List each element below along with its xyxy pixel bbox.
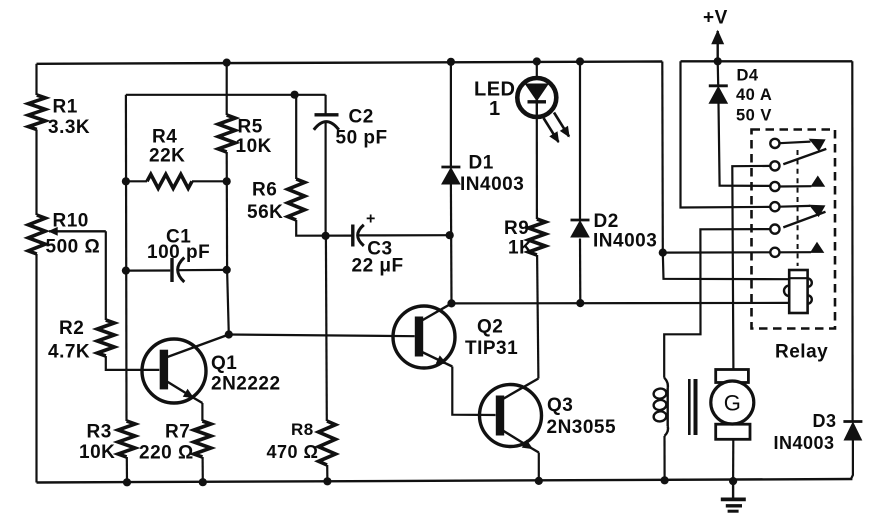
label G [724,391,741,416]
wire R5 branch from top rail [226,63,228,115]
svg-text:R2: R2 [59,318,84,339]
junction right rail / +V arrow [714,57,722,65]
motor G brush cap bottom [716,424,750,439]
relay contact NO contact 2 [770,243,823,257]
label D4 [736,67,772,125]
label R3 [79,422,115,464]
svg-text:D1: D1 [469,152,494,173]
wire R10 wiper to R2 [49,228,106,320]
svg-text:IN4003: IN4003 [774,433,835,453]
svg-text:22K: 22K [149,146,185,167]
junction ground rail / Q3 emitter [535,477,543,485]
wire R4 left [126,180,147,182]
transistor Q3 [480,379,542,453]
wire LED to R9 [536,118,538,220]
resistor R3 [118,421,135,457]
wire R5 to R4/C1/Q1 collector [227,152,229,335]
wire C2 bottom to C3 net [325,122,327,236]
label C3 [352,239,404,277]
svg-text:56K: 56K [247,202,283,223]
svg-text:Q3: Q3 [547,395,573,416]
wire D2 branch [579,62,581,304]
relay contact arm 1 [770,149,826,171]
wire Q3 emitter drop [538,453,540,481]
svg-text:470 Ω: 470 Ω [267,442,319,462]
svg-text:TIP31: TIP31 [465,338,518,359]
junction top rail / R5 branch [223,59,231,67]
inductor field coil [653,378,668,436]
wire top supply rail [37,62,663,64]
label R2 [48,318,90,363]
wire +V drop to relay coil top [663,253,789,280]
svg-text:D4: D4 [737,67,759,85]
svg-text:10K: 10K [236,136,272,157]
svg-text:R9: R9 [504,218,529,239]
label D1 [460,152,524,195]
transistor Q1 [142,335,229,404]
svg-text:G: G [724,391,741,416]
wire R9 to Q3 collector [537,255,538,379]
LED LED1 circle [517,78,556,117]
svg-text:220 Ω: 220 Ω [139,443,194,464]
relay contact arm 2 [770,212,825,234]
svg-text:R1: R1 [53,97,78,118]
svg-text:Relay: Relay [775,342,828,363]
motor G brush cap top [716,370,749,383]
wire right box right edge upper [851,61,853,420]
svg-text:R6: R6 [252,180,277,201]
label R9 [504,218,533,259]
junction ground rail / R7 [199,478,207,486]
resistor R8 [319,421,336,465]
label +V [703,8,728,29]
resistor R9 [528,219,545,255]
junction node A / R6 [291,91,299,99]
label D3 [774,411,837,453]
wire relay contact 5 to inductor [664,229,770,378]
svg-text:R8: R8 [291,420,314,439]
label R8 [267,420,319,462]
relay contact NC contact 1 [810,139,825,150]
diode D2 [571,220,590,237]
svg-text:R4: R4 [152,127,177,148]
svg-text:50 V: 50 V [736,106,772,124]
wire Q1 emitter drop [201,403,203,421]
wire R7 to rail [202,457,204,482]
wire D1 branch [450,62,453,304]
svg-text:40 A: 40 A [736,86,772,104]
junction Q1 collector / Q2 base [225,330,233,338]
wire right box right edge lower [851,440,853,479]
junction Q2 collector / D1 [447,299,455,307]
junction coil feed / D2 [576,299,584,307]
wire R4 right [192,180,227,182]
svg-text:50 pF: 50 pF [336,128,388,149]
svg-text:IN4003: IN4003 [593,230,657,251]
junction R4 right / R5 [223,177,231,185]
junction C3 net / D1 [446,231,454,239]
potentiometer R10 [28,215,45,254]
label C3 polarity + [366,211,376,228]
resistor R6 [288,179,305,220]
ground [721,481,746,511]
junction +V drop / contact 6 branch [659,249,667,257]
wire C1 left [126,269,170,271]
svg-text:D2: D2 [594,211,619,232]
wire relay contact 2 to motor [732,166,770,370]
diode D4 [709,86,728,104]
junction ground rail / inductor [661,476,669,484]
wire R6 bottom corner to C3 [296,220,351,236]
svg-text:1: 1 [489,98,501,120]
label Relay [775,342,828,363]
relay contact terminal 1 [770,139,810,148]
wire R8 branch [326,236,328,481]
relay contact NO contact 1 [770,176,824,191]
junction ground rail / R3 [123,478,131,486]
label R4 [149,127,185,167]
label R10 [46,211,101,258]
wire +V to D4 [717,61,720,85]
resistor R1 [28,95,45,130]
svg-text:1K: 1K [508,238,533,259]
label R5 [236,117,272,157]
relay enclosure dashed box [752,130,836,329]
svg-text:R5: R5 [238,117,263,138]
svg-text:R3: R3 [87,422,112,443]
wire Q1 collector to Q2 base [229,335,415,337]
relay contact terminal 2 [770,202,810,211]
svg-text:R7: R7 [165,422,190,443]
wire inductor to rail [663,436,665,480]
label D2 [593,211,657,252]
relay coil [784,270,812,313]
wire node A horizontal (R3/R4/C1/C2/R6 net) [126,94,326,96]
wire right box left edge to relay contact 4 [681,61,771,207]
wire right box top rail [681,60,853,62]
junction C3 net / C2 [322,232,330,240]
wire R6 top [295,95,297,179]
svg-text:4.7K: 4.7K [48,342,90,363]
LED LED1 die [526,84,549,118]
junction top rail / D2 [576,57,584,65]
magnetic core bars [689,379,695,435]
label R7 [139,422,194,464]
wire R2 to Q1 base [106,356,160,370]
svg-text:+V: +V [703,8,728,29]
svg-text:Q2: Q2 [477,317,503,338]
wire LED branch [536,62,538,79]
wire C1 right [178,269,227,272]
motor G body [711,381,754,424]
label Q1 [211,353,281,395]
label R1 [48,97,90,139]
junction top rail / LED1 [533,57,541,65]
svg-text:10K: 10K [79,442,115,463]
label LED1 [474,79,516,121]
label C1 [147,227,210,263]
junction C1 left [122,267,130,275]
wire C3 right [358,234,450,236]
capacitor C1 [172,258,184,283]
resistor R2 [97,320,114,356]
junction R4 left [122,177,130,185]
svg-text:R10: R10 [53,211,89,232]
wire left rail [35,64,37,483]
wire bottom ground rail [37,479,853,483]
diode D1 [441,167,460,184]
wire +V drop to relay contact 6 [662,62,770,253]
resistor R5 [218,115,235,152]
LED LED1 emission arrows [544,113,570,143]
wire Q2 emitter to Q3 base [452,367,495,416]
capacitor C2 [314,115,339,130]
capacitor C3 [353,225,364,247]
label R6 [247,180,283,223]
svg-text:C2: C2 [349,107,374,128]
transistor Q2 [393,303,455,368]
resistor R7 [194,421,211,457]
label Q2 [465,317,518,360]
svg-text:+: + [366,211,376,228]
svg-text:2N3055: 2N3055 [547,417,617,438]
wire C2 top [325,95,327,115]
svg-text:IN4003: IN4003 [460,174,524,195]
svg-text:Q1: Q1 [211,353,237,374]
diode D3 [843,422,862,441]
junction ground rail / motor and ground symbol [729,477,737,485]
wire motor to ground junction [732,439,734,481]
svg-text:22 μF: 22 μF [352,256,404,277]
svg-text:100 pF: 100 pF [147,242,210,263]
relay actuator dashed link [797,150,799,266]
wire node A left vertical [126,95,127,483]
+V supply arrow [712,31,723,61]
label C2 [336,107,388,149]
wire D4 to relay contact 3 [719,103,771,185]
junction top rail / D1 [447,58,455,66]
wire relay coil lower feed [452,302,790,305]
relay contact NC contact 2 [810,205,825,216]
resistor R4 [147,174,192,188]
svg-text:2N2222: 2N2222 [211,374,281,395]
junction C1 right [223,266,231,274]
svg-text:500 Ω: 500 Ω [46,237,101,258]
svg-text:3.3K: 3.3K [48,117,90,138]
junction ground rail / R8 [323,477,331,485]
svg-text:D3: D3 [813,411,837,431]
label Q3 [547,395,617,438]
